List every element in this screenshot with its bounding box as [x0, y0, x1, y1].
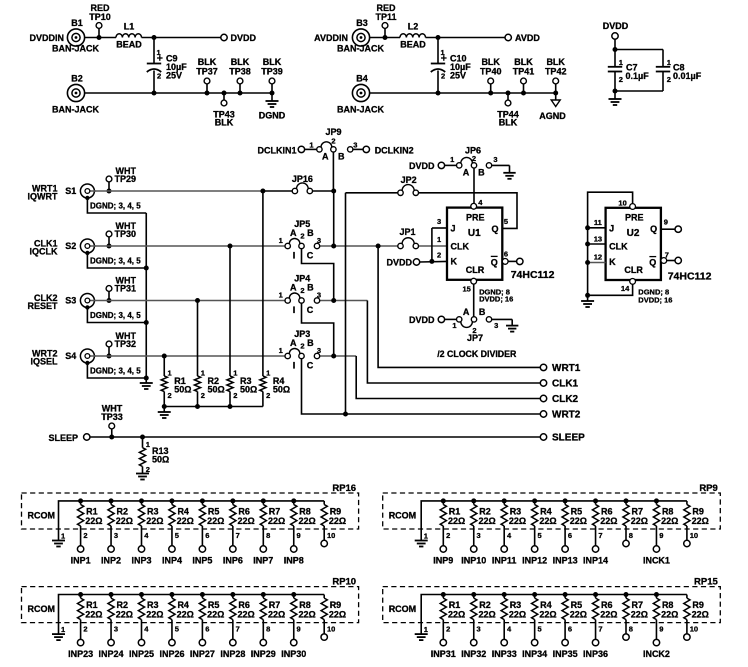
RP15 resistor R2 22Ω [471, 592, 496, 620]
node bypass top [613, 47, 618, 52]
svg-text:4: 4 [144, 625, 149, 634]
wire S3 shell to DGND chain [87, 308, 148, 326]
svg-text:1: 1 [61, 532, 65, 541]
svg-text:22Ω: 22Ω [570, 516, 587, 526]
ground R13 [136, 474, 149, 480]
svg-text:DGND: DGND [259, 110, 286, 120]
svg-text:22Ω: 22Ω [116, 516, 133, 526]
svg-text:INP9: INP9 [433, 556, 453, 566]
svg-text:A: A [290, 338, 297, 348]
RP15 resistor R8 22Ω [653, 592, 678, 620]
svg-text:5: 5 [537, 531, 541, 540]
svg-text:Q: Q [649, 258, 656, 268]
svg-text:AVDDIN: AVDDIN [314, 33, 348, 43]
svg-text:TP11: TP11 [375, 12, 396, 22]
inductor L2 BEAD [400, 22, 426, 50]
svg-text:R6: R6 [601, 506, 613, 516]
wire S4 JP3 out [320, 355, 357, 357]
svg-text:10: 10 [690, 531, 698, 540]
svg-text:B: B [307, 228, 314, 238]
svg-text:22Ω: 22Ω [631, 610, 648, 620]
svg-text:C: C [307, 305, 314, 315]
RP10 resistor R6 22Ω [230, 592, 255, 620]
svg-text:BAN-JACK: BAN-JACK [52, 43, 100, 53]
RP15 pin 4 INP33 [492, 620, 517, 660]
svg-text:50Ω: 50Ω [273, 384, 290, 394]
svg-text:R5: R5 [571, 600, 583, 610]
banana jack B1 (DVDDIN) [29, 18, 99, 53]
svg-text:I: I [293, 305, 296, 315]
jumper JP3 [279, 329, 321, 371]
svg-text:22Ω: 22Ω [661, 610, 678, 620]
RP15 pin 10 pin 10 n.c. [684, 620, 698, 641]
svg-text:JP2: JP2 [401, 175, 417, 185]
svg-text:9: 9 [297, 531, 301, 540]
svg-text:1: 1 [437, 235, 441, 244]
svg-text:2: 2 [472, 154, 476, 163]
svg-text:15: 15 [463, 285, 471, 294]
RP16 RCOM rail [28, 501, 325, 529]
RP10 pin 3 INP24 [99, 620, 124, 660]
wire U2 Qbar to terminal [661, 258, 675, 264]
svg-text:22Ω: 22Ω [631, 516, 648, 526]
svg-text:B: B [479, 307, 486, 317]
svg-text:1: 1 [441, 48, 445, 57]
svg-text:R9: R9 [692, 600, 704, 610]
resistor pack RP9 [383, 483, 721, 529]
svg-text:5: 5 [175, 531, 179, 540]
svg-text:INP6: INP6 [223, 556, 243, 566]
svg-text:INP12: INP12 [522, 556, 547, 566]
RP15 resistor R3 22Ω [501, 592, 526, 620]
svg-text:INP14: INP14 [583, 556, 608, 566]
RP16 pin 3 INP2 [101, 526, 121, 566]
RP10 resistor R2 22Ω [108, 592, 133, 620]
svg-text:R8: R8 [299, 600, 311, 610]
svg-text:INP10: INP10 [461, 556, 486, 566]
svg-text:I: I [293, 361, 296, 371]
svg-text:J: J [609, 224, 614, 234]
svg-text:22Ω: 22Ω [539, 516, 556, 526]
svg-text:22Ω: 22Ω [268, 610, 285, 620]
RP10 pin 2 INP23 [68, 620, 93, 660]
svg-text:22Ω: 22Ω [329, 610, 346, 620]
RP16 resistor R9 22Ω [321, 501, 346, 526]
node WRT2 line junction [343, 412, 348, 417]
node S1-R4 junction [260, 189, 265, 194]
ground JP7 [506, 326, 518, 332]
svg-text:TP40: TP40 [480, 66, 502, 76]
terminal SLEEP left [48, 433, 89, 443]
test point TP39 (BLK) [261, 57, 283, 96]
svg-text:3: 3 [477, 625, 481, 634]
wire S4 row [94, 355, 285, 357]
test point TP31 (WHT) [106, 276, 136, 304]
svg-text:DCLKIN2: DCLKIN2 [375, 145, 414, 155]
svg-text:S3: S3 [65, 295, 76, 305]
wire DGND rail [85, 92, 272, 94]
svg-text:CLR: CLR [466, 265, 485, 275]
RP10 resistor R5 22Ω [199, 592, 224, 620]
RP9 pin 6 INP13 [553, 526, 578, 566]
svg-text:TP30: TP30 [115, 229, 137, 239]
svg-text:R1: R1 [86, 600, 98, 610]
RP16 resistor R4 22Ω [169, 498, 194, 526]
svg-text:A: A [290, 283, 297, 293]
svg-text:BAN-JACK: BAN-JACK [337, 43, 385, 53]
test point TP11 (RED) [375, 3, 396, 40]
svg-text:INCK1: INCK1 [643, 556, 670, 566]
svg-text:7: 7 [598, 531, 602, 540]
svg-text:U2: U2 [627, 228, 640, 239]
svg-text:R2: R2 [117, 506, 129, 516]
svg-text:C: C [307, 361, 314, 371]
node R13 junction [140, 435, 145, 440]
wire L1 to DVDD terminal [142, 37, 221, 39]
svg-text:R4: R4 [177, 506, 189, 516]
label /2 CLOCK DIVIDER [437, 349, 517, 359]
terminal DCLKIN2 label [375, 145, 414, 155]
resistor R2 50Ω [194, 368, 224, 406]
svg-text:Q: Q [650, 224, 657, 234]
RP10 resistor R4 22Ω [169, 592, 194, 620]
test point TP37 (BLK) [196, 57, 218, 96]
svg-text:22Ω: 22Ω [85, 610, 102, 620]
terminal WRT2 [540, 410, 580, 421]
svg-text:INP1: INP1 [71, 556, 91, 566]
RP9 pin 10 pin 10 n.c. [684, 526, 698, 547]
test point TP10 (RED) [89, 3, 111, 40]
RP10 pin 5 INP26 [159, 620, 184, 660]
svg-text:DVDDIN: DVDDIN [29, 33, 64, 43]
svg-text:1: 1 [279, 236, 283, 245]
svg-text:INP7: INP7 [253, 556, 273, 566]
wire JP3 out to CLK2 [356, 356, 543, 399]
svg-text:INCK2: INCK2 [643, 649, 670, 659]
svg-text:9: 9 [664, 218, 668, 227]
svg-text:R6: R6 [601, 600, 613, 610]
svg-text:INP5: INP5 [192, 556, 212, 566]
wire to R4 [262, 191, 264, 376]
svg-text:2: 2 [331, 136, 335, 145]
svg-text:BEAD: BEAD [400, 39, 426, 49]
svg-text:22Ω: 22Ω [448, 516, 465, 526]
wire C8 down [615, 72, 663, 91]
RP10 pin 4 INP25 [129, 620, 154, 660]
connector S1 (WRT1/IQWRT) [28, 184, 96, 202]
wire S2 JP1 out to U1 CLK [418, 245, 447, 247]
test point TP44 (BLK) [497, 91, 519, 128]
RP10 pin 10 pin 10 n.c. [321, 620, 335, 641]
svg-text:R5: R5 [571, 506, 583, 516]
RP9 pin 7 INP14 [583, 526, 608, 566]
svg-text:2: 2 [437, 251, 441, 260]
svg-text:IQSEL: IQSEL [30, 357, 58, 367]
svg-text:B1: B1 [71, 18, 83, 28]
RP15 resistor R1 22Ω [440, 592, 465, 620]
RP16 resistor R7 22Ω [260, 498, 285, 526]
svg-text:R4: R4 [540, 506, 552, 516]
svg-text:22Ω: 22Ω [478, 516, 495, 526]
terminal U2 pin7 [675, 257, 681, 263]
RP16 resistor R5 22Ω [199, 498, 224, 526]
svg-text:J: J [451, 223, 456, 233]
test point TP32 (WHT) [106, 331, 136, 359]
svg-text:22Ω: 22Ω [692, 610, 709, 620]
resistor pack RP15 [383, 577, 721, 623]
connector S2 (CLK1/IQCLK) [30, 239, 96, 257]
svg-text:R1: R1 [449, 600, 461, 610]
svg-text:1: 1 [619, 58, 623, 67]
svg-text:25V: 25V [166, 70, 182, 80]
svg-text:1: 1 [201, 368, 205, 377]
svg-text:INP8: INP8 [284, 556, 304, 566]
svg-text:TP37: TP37 [196, 66, 218, 76]
svg-text:CLK2: CLK2 [552, 394, 579, 405]
capacitor C10 10uF 25V [431, 38, 471, 94]
node C10 top junction [436, 35, 441, 40]
svg-text:R7: R7 [269, 600, 281, 610]
svg-text:INP36: INP36 [583, 649, 608, 659]
svg-text:INP25: INP25 [129, 649, 154, 659]
RP9 pin 1 ground [415, 529, 428, 547]
RP16 resistor R8 22Ω [291, 498, 316, 526]
svg-text:50Ω: 50Ω [240, 384, 257, 394]
ground R rail [158, 407, 171, 419]
svg-text:74HC112: 74HC112 [511, 269, 555, 281]
RP10 pin 9 INP30 [281, 620, 306, 660]
svg-text:11: 11 [594, 218, 602, 227]
svg-text:DVDD; 16: DVDD; 16 [479, 295, 513, 304]
wire to R3 [229, 246, 231, 376]
svg-text:WRT2: WRT2 [552, 410, 581, 421]
svg-text:DGND; 3, 4, 5: DGND; 3, 4, 5 [90, 256, 141, 265]
node C9 bottom [152, 91, 157, 96]
svg-text:2: 2 [233, 391, 237, 400]
svg-text:SLEEP: SLEEP [552, 433, 585, 444]
svg-text:RCOM: RCOM [389, 604, 417, 614]
svg-text:2: 2 [157, 72, 161, 81]
RP9 resistor R5 22Ω [562, 498, 587, 526]
ground DGND chain [140, 383, 153, 389]
RP15 resistor R4 22Ω [532, 592, 557, 620]
resistor R1 50Ω [161, 368, 191, 406]
svg-text:DCLKIN1: DCLKIN1 [257, 145, 296, 155]
svg-text:PRE: PRE [466, 212, 485, 222]
test point TP40 (BLK) [480, 57, 502, 96]
svg-text:I: I [293, 251, 296, 261]
svg-text:INP23: INP23 [68, 649, 93, 659]
wire S2 shell to DGND chain [87, 253, 148, 271]
svg-text:22Ω: 22Ω [600, 610, 617, 620]
RP9 resistor R8 22Ω [653, 498, 678, 526]
svg-text:R7: R7 [632, 600, 644, 610]
RP10 resistor R3 22Ω [138, 592, 163, 620]
svg-text:2: 2 [266, 391, 270, 400]
svg-text:U1: U1 [468, 228, 481, 239]
svg-text:Q: Q [491, 257, 498, 267]
svg-text:DGND; 3, 4, 5: DGND; 3, 4, 5 [90, 311, 141, 320]
svg-text:TP41: TP41 [513, 66, 535, 76]
wire U2 CLK stub [585, 242, 606, 247]
svg-text:50Ω: 50Ω [152, 454, 169, 464]
RP15 pin 1 ground [415, 623, 428, 641]
RP9 RCOM rail [389, 501, 687, 529]
svg-text:INP32: INP32 [461, 649, 486, 659]
svg-text:74HC112: 74HC112 [668, 270, 712, 282]
svg-text:R7: R7 [269, 506, 281, 516]
svg-text:5: 5 [504, 217, 508, 226]
wire S2 row [94, 245, 285, 247]
wire U2 K stub [585, 260, 606, 265]
svg-text:10: 10 [690, 625, 698, 634]
svg-text:1: 1 [157, 48, 161, 57]
svg-text:CLK: CLK [609, 242, 628, 252]
capacitor C8 0.01uF [656, 58, 702, 84]
RP10 pin 6 INP27 [190, 620, 215, 660]
svg-text:1: 1 [424, 532, 428, 541]
svg-text:22Ω: 22Ω [509, 610, 526, 620]
svg-text:6: 6 [568, 625, 572, 634]
terminal U1 pin6 [517, 258, 523, 264]
inductor L1 BEAD [116, 22, 142, 50]
svg-text:K: K [451, 257, 458, 267]
banana jack B3 (AVDDIN) [314, 18, 384, 53]
ground DGND [259, 93, 286, 120]
resistor pack RP16 [22, 483, 359, 529]
wire JP4 out to CLK1 [367, 301, 543, 384]
wire WRT1 tap to terminal [378, 246, 543, 367]
svg-text:1: 1 [424, 625, 428, 634]
node JP3 pin3 junction [331, 354, 336, 359]
svg-text:12: 12 [594, 253, 602, 262]
svg-text:25V: 25V [450, 70, 466, 80]
svg-text:RCOM: RCOM [28, 510, 56, 520]
RP15 pin 7 INP36 [583, 620, 608, 660]
RP16 resistor R2 22Ω [108, 498, 133, 526]
node S2-R3 junction [228, 244, 233, 249]
RP9 resistor R6 22Ω [592, 498, 617, 526]
svg-text:R9: R9 [330, 600, 342, 610]
svg-text:A: A [463, 307, 470, 317]
RP15 resistor R5 22Ω [562, 592, 587, 620]
svg-text:INP26: INP26 [159, 649, 184, 659]
svg-text:1: 1 [279, 291, 283, 300]
svg-text:INP27: INP27 [190, 649, 215, 659]
RP9 pin 2 INP9 [433, 526, 453, 566]
svg-text:R3: R3 [510, 506, 522, 516]
svg-text:INP3: INP3 [131, 556, 151, 566]
svg-text:22Ω: 22Ω [692, 516, 709, 526]
wire U1 CLR to JP7 [473, 284, 475, 317]
svg-text:4: 4 [507, 531, 512, 540]
RP10 pin 8 INP29 [251, 620, 276, 660]
wire U2 Q to terminal [661, 228, 675, 230]
svg-text:2: 2 [441, 72, 445, 81]
RP15 pin 9 INCK2 [643, 620, 670, 660]
wire DVDD to caps [614, 39, 616, 66]
svg-text:K: K [609, 257, 616, 267]
ground JP6 [503, 173, 515, 179]
svg-text:2: 2 [446, 625, 450, 634]
svg-text:DVDD: DVDD [603, 21, 629, 31]
svg-text:10: 10 [618, 199, 626, 208]
jumper JP5 [279, 219, 321, 261]
RP9 resistor R7 22Ω [623, 498, 648, 526]
wire S1 shell to DGND chain [87, 198, 146, 213]
RP10 resistor R7 22Ω [260, 592, 285, 620]
svg-text:PRE: PRE [625, 213, 644, 223]
jumper JP4 [279, 274, 321, 316]
wire JP9 pin2 down [332, 152, 334, 191]
svg-text:R5: R5 [208, 506, 220, 516]
svg-text:R2: R2 [479, 506, 491, 516]
jumper JP9 [298, 127, 369, 161]
svg-text:RP9: RP9 [699, 483, 717, 494]
svg-text:7: 7 [598, 625, 602, 634]
svg-text:22Ω: 22Ω [177, 516, 194, 526]
wire U1 Qbar to terminal [502, 259, 516, 265]
jumper JP1 [398, 227, 419, 249]
svg-text:1: 1 [266, 368, 270, 377]
svg-text:DVDD; 16: DVDD; 16 [638, 295, 672, 304]
svg-text:3: 3 [114, 625, 118, 634]
resistor R13 50Ω [139, 437, 169, 474]
RP9 resistor R4 22Ω [532, 498, 557, 526]
svg-text:S4: S4 [65, 351, 76, 361]
svg-text:3: 3 [494, 321, 498, 330]
node WRT1 tap junction [376, 244, 381, 249]
RP9 pin 3 INP10 [461, 526, 486, 566]
RP15 pin 2 INP31 [431, 620, 456, 660]
RP15 RCOM rail [389, 595, 687, 623]
svg-text:22Ω: 22Ω [509, 516, 526, 526]
RP16 pin 6 INP5 [192, 526, 212, 566]
wire U2 PRE loop [588, 192, 633, 301]
svg-text:8: 8 [266, 625, 270, 634]
svg-text:22Ω: 22Ω [116, 610, 133, 620]
svg-text:TP10: TP10 [89, 12, 111, 22]
svg-text:2: 2 [83, 625, 87, 634]
wire JP2 right to U1 Q [418, 193, 517, 229]
svg-text:RP10: RP10 [332, 577, 356, 588]
wire J-K tie vertical [432, 228, 447, 261]
RP15 pin 3 INP32 [461, 620, 486, 660]
svg-text:R3: R3 [147, 600, 159, 610]
svg-text:R8: R8 [662, 506, 674, 516]
svg-text:R8: R8 [299, 506, 311, 516]
terminal CLK2 [540, 394, 578, 405]
RP16 pin 10 pin 10 n.c. [321, 526, 335, 547]
svg-text:DVDD: DVDD [409, 161, 435, 171]
terminal WRT1 [540, 363, 580, 374]
terminal AVDD [505, 33, 540, 43]
svg-text:DGND; 3, 4, 5: DGND; 3, 4, 5 [90, 366, 141, 375]
svg-text:0.1µF: 0.1µF [626, 71, 650, 81]
svg-text:TP31: TP31 [115, 284, 137, 294]
svg-text:R9: R9 [692, 506, 704, 516]
svg-text:AVDD: AVDD [515, 33, 540, 43]
svg-text:2: 2 [201, 391, 205, 400]
svg-text:BEAD: BEAD [116, 39, 142, 49]
svg-text:6: 6 [205, 625, 209, 634]
jumper JP2 [398, 175, 419, 196]
svg-text:2: 2 [300, 342, 304, 351]
svg-text:6: 6 [568, 531, 572, 540]
wire DVDD to K [420, 260, 447, 263]
banana jack B2 [52, 73, 100, 114]
svg-text:22Ω: 22Ω [238, 516, 255, 526]
